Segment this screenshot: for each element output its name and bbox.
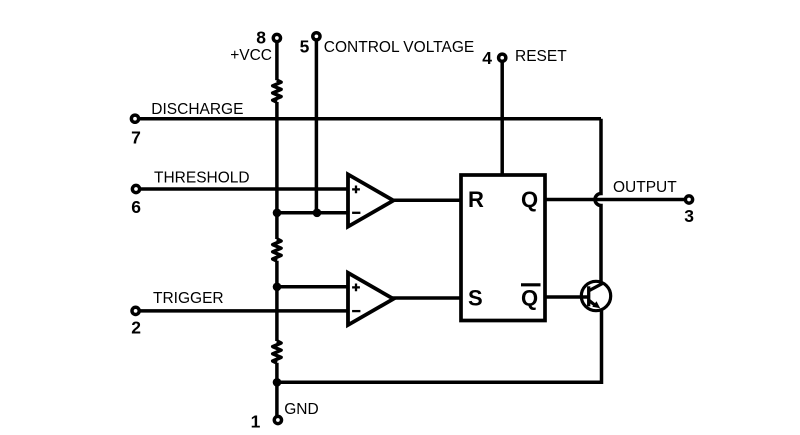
wire Q output to pin3 [544,198,689,202]
junction GND node dot [273,378,282,387]
transistor Q1 internals [589,284,603,307]
wire emitter down and left to GND node [277,311,602,383]
junction node B dot (divider to comparator2 plus) [273,283,282,292]
svg-text:7: 7 [131,128,141,148]
pin 5 terminal circle [313,33,320,40]
pin 1 terminal circle [274,416,281,423]
svg-text:Q: Q [521,187,538,212]
wire R2 to node B [275,261,279,341]
pin 7 terminal circle [131,115,138,122]
wire node B to comparator2 plus [277,285,350,289]
svg-text:8: 8 [256,27,266,47]
flip-flop box U1 [461,175,545,321]
Qbar overbar [521,283,541,286]
svg-text:RESET: RESET [515,48,567,65]
svg-text:Q: Q [521,285,538,310]
svg-text:R: R [468,187,484,212]
svg-text:3: 3 [684,206,694,226]
wire threshold pin6 to comparator1 plus [136,187,349,191]
op-amp comparator2 [348,273,393,325]
wire R1 to node A [275,102,279,239]
svg-text:1: 1 [251,412,261,432]
wire control voltage vertical pin5 down to node A [315,36,319,213]
pin 2 terminal circle [132,307,139,314]
svg-text:S: S [468,285,483,310]
transistor emitter diagonal [589,300,595,305]
pin 3 terminal circle [685,196,692,203]
svg-text:OUTPUT: OUTPUT [613,179,677,196]
resistor R3 [273,341,281,363]
wire R3 down to GND pin1 [275,363,279,420]
svg-text:2: 2 [131,318,141,338]
wire discharge vertical with hop over output wire [595,119,601,285]
pin 8 terminal circle [273,34,280,41]
comparator1 plus sign [352,186,360,194]
svg-text:5: 5 [300,37,310,57]
comparator1 minus sign [352,212,360,214]
transistor emitter arrowhead [592,301,600,308]
svg-text:CONTROL VOLTAGE: CONTROL VOLTAGE [324,39,474,56]
pin 6 terminal circle [132,185,139,192]
resistor R1 [273,80,281,102]
wire Qbar to transistor base [544,295,589,299]
wire discharge horizontal pin7 to right rail [135,117,601,121]
junction dot control voltage at node A wire [313,209,322,218]
comparator2 plus sign [352,284,360,292]
wire reset pin4 down to flip-flop top [500,58,504,176]
pin 4 terminal circle [499,54,506,61]
transistor base bar [587,286,590,306]
wire comparator1 minus to divider node A [277,211,350,215]
op-amp comparator1 [348,174,393,226]
comparator2 minus sign [352,310,360,312]
wire comparator1 output to R input [392,198,462,202]
svg-text:+VCC: +VCC [230,47,272,64]
wire VCC from pin8 down to resistor R1 [275,38,279,80]
svg-text:4: 4 [482,48,492,68]
resistor R2 [273,239,281,261]
svg-text:TRIGGER: TRIGGER [153,290,224,307]
svg-text:DISCHARGE: DISCHARGE [151,101,243,118]
wire trigger pin2 to comparator2 minus [136,309,349,313]
transistor Q1 circle [581,281,610,310]
svg-text:6: 6 [131,197,141,217]
wire comparator2 output to S input [392,296,462,300]
transistor collector diagonal [589,284,603,291]
svg-text:THRESHOLD: THRESHOLD [154,170,250,187]
junction node A dot (divider to comparator1 minus) [273,209,282,218]
svg-text:GND: GND [284,401,318,418]
